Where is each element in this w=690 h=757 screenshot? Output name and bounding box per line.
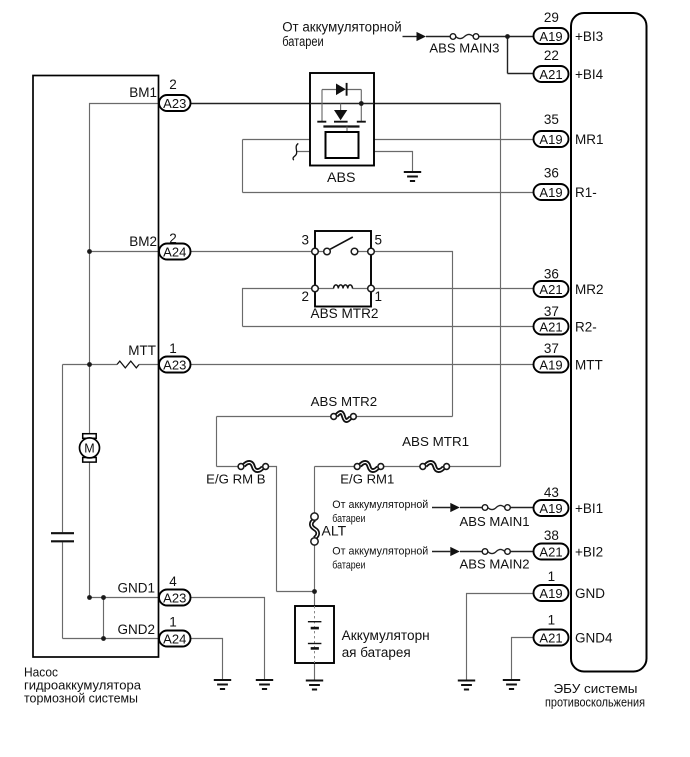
svg-text:E/G RM1: E/G RM1 (340, 473, 394, 487)
svg-text:батареи: батареи (332, 513, 365, 525)
svg-text:29: 29 (544, 10, 559, 25)
svg-text:MTT: MTT (128, 343, 156, 358)
svg-text:+BI3: +BI3 (575, 29, 603, 44)
svg-text:A23: A23 (163, 590, 186, 605)
svg-text:BM2: BM2 (129, 234, 157, 249)
svg-text:GND2: GND2 (117, 622, 155, 637)
svg-text:37: 37 (544, 341, 559, 356)
svg-text:A21: A21 (539, 630, 562, 645)
svg-text:A24: A24 (163, 244, 186, 259)
svg-text:E/G RM B: E/G RM B (206, 473, 265, 487)
svg-text:+BI2: +BI2 (575, 544, 603, 559)
svg-text:MR1: MR1 (575, 132, 604, 147)
svg-text:38: 38 (544, 528, 559, 543)
svg-text:+BI4: +BI4 (575, 67, 604, 82)
svg-text:тормозной системы: тормозной системы (24, 691, 138, 706)
svg-text:A23: A23 (163, 96, 186, 111)
svg-text:35: 35 (544, 112, 559, 127)
svg-text:ABS MAIN3: ABS MAIN3 (429, 42, 499, 56)
svg-text:36: 36 (544, 166, 559, 181)
svg-text:A21: A21 (539, 544, 562, 559)
svg-text:22: 22 (544, 48, 559, 63)
svg-text:ABS: ABS (327, 169, 356, 185)
svg-text:батареи: батареи (332, 560, 365, 572)
svg-text:MR2: MR2 (575, 282, 604, 297)
svg-text:ABS MTR2: ABS MTR2 (311, 306, 379, 321)
svg-text:A19: A19 (539, 501, 562, 516)
svg-text:A19: A19 (539, 357, 562, 372)
svg-text:2: 2 (301, 289, 309, 304)
svg-text:2: 2 (169, 231, 177, 246)
svg-text:противоскольжения: противоскольжения (545, 695, 645, 710)
svg-text:A19: A19 (539, 132, 562, 147)
svg-text:От аккумуляторной: От аккумуляторной (332, 546, 428, 558)
svg-text:ABS MTR1: ABS MTR1 (402, 435, 469, 449)
svg-text:A21: A21 (539, 319, 562, 334)
svg-text:37: 37 (544, 304, 559, 319)
svg-text:1: 1 (375, 289, 383, 304)
svg-text:2: 2 (169, 77, 177, 92)
svg-text:4: 4 (169, 574, 177, 589)
svg-text:43: 43 (544, 485, 559, 500)
svg-text:1: 1 (548, 569, 556, 584)
svg-text:1: 1 (548, 613, 556, 628)
svg-text:A24: A24 (163, 631, 186, 646)
svg-text:3: 3 (301, 233, 309, 248)
svg-text:ABS MTR2: ABS MTR2 (311, 395, 378, 409)
svg-text:R2-: R2- (575, 319, 597, 334)
svg-text:GND1: GND1 (117, 581, 155, 596)
svg-text:M: M (84, 442, 94, 456)
svg-text:A19: A19 (539, 586, 562, 601)
svg-text:MTT: MTT (575, 357, 603, 372)
svg-text:GND4: GND4 (575, 630, 613, 645)
svg-text:A21: A21 (539, 282, 562, 297)
svg-text:От аккумуляторной: От аккумуляторной (332, 499, 428, 511)
svg-text:ая батарея: ая батарея (342, 645, 411, 660)
svg-text:1: 1 (169, 341, 177, 356)
svg-text:батареи: батареи (282, 34, 324, 49)
svg-text:BM1: BM1 (129, 85, 157, 100)
svg-text:A23: A23 (163, 357, 186, 372)
svg-text:Аккумуляторн: Аккумуляторн (342, 628, 430, 643)
svg-text:A19: A19 (539, 185, 562, 200)
svg-text:От аккумуляторной: От аккумуляторной (282, 20, 402, 35)
svg-text:36: 36 (544, 267, 559, 282)
svg-text:R1-: R1- (575, 185, 597, 200)
svg-text:A21: A21 (539, 67, 562, 82)
svg-text:5: 5 (375, 233, 383, 248)
svg-text:ABS MAIN2: ABS MAIN2 (460, 558, 530, 572)
svg-text:1: 1 (169, 615, 177, 630)
svg-text:A19: A19 (539, 29, 562, 44)
svg-text:+BI1: +BI1 (575, 501, 603, 516)
svg-text:ABS MAIN1: ABS MAIN1 (460, 515, 530, 529)
svg-text:GND: GND (575, 586, 605, 601)
